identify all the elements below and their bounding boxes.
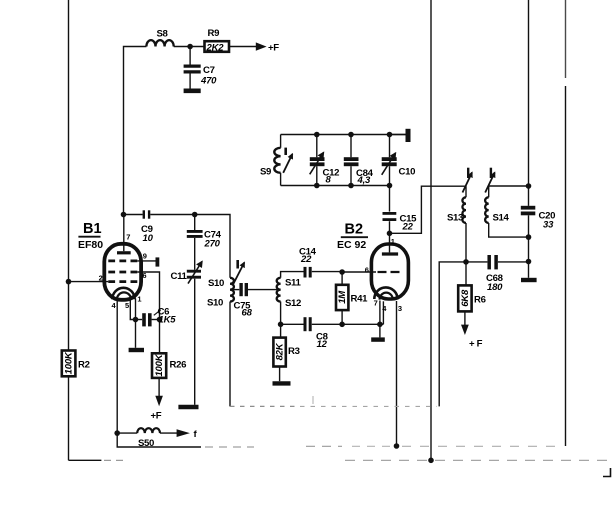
- svg-text:R2: R2: [78, 360, 90, 371]
- svg-text:S10: S10: [208, 278, 224, 289]
- svg-text:R26: R26: [170, 360, 187, 371]
- wire C11 to ground: [194, 279, 196, 405]
- wire far right vertical: [565, 0, 567, 78]
- svg-text:7: 7: [374, 298, 378, 307]
- capacitor C75: [239, 283, 242, 296]
- node B2 cathode junction: [377, 322, 383, 328]
- capacitor C84: [350, 135, 352, 158]
- tank bottom rail: [281, 185, 390, 187]
- B1 underline: [78, 236, 100, 238]
- wire top plate supply: [124, 47, 147, 215]
- wire to C9: [124, 214, 143, 216]
- B1 grid g2 row: [108, 271, 137, 274]
- inductor S50: [137, 428, 160, 433]
- wire faint tick: [312, 396, 314, 404]
- wire B2 pin3 lead: [396, 301, 398, 446]
- svg-text:EF80: EF80: [78, 239, 103, 251]
- wire left rail bottom corner: [69, 459, 102, 461]
- tube B1 envelope: [104, 244, 141, 300]
- svg-text:12: 12: [317, 339, 328, 350]
- node bottom mid: [428, 458, 434, 464]
- wire faint bottom y460: [104, 459, 128, 461]
- svg-text:R9: R9: [208, 28, 220, 39]
- capacitor C8: [304, 317, 307, 331]
- node S12/R3/C8: [278, 322, 284, 328]
- wire to S50: [117, 432, 137, 434]
- B1 anode plate: [117, 251, 131, 254]
- node pin3 end: [394, 443, 400, 449]
- svg-text:22: 22: [300, 254, 312, 265]
- inductor S8: [146, 40, 173, 46]
- svg-text:6: 6: [142, 271, 146, 280]
- wire C9 to C74 node: [150, 214, 194, 216]
- S13 adjust arrow: [467, 168, 469, 178]
- node C84 top: [348, 132, 354, 138]
- node C68 right: [526, 259, 532, 265]
- inductor S14: [485, 197, 489, 223]
- capacitor C12 (variable): [316, 135, 318, 158]
- svg-text:68: 68: [242, 308, 253, 319]
- wire S14 bottom to C20 bottom: [489, 223, 529, 237]
- B2 anode plate: [382, 252, 398, 255]
- resistor R6: [465, 262, 467, 286]
- svg-text:S50: S50: [138, 438, 154, 449]
- node S13/R6/C68: [463, 259, 469, 265]
- wire AVC line: [229, 302, 231, 407]
- resistor R9: [205, 41, 230, 52]
- wire S8 to R9: [174, 46, 205, 48]
- svg-text:1K5: 1K5: [159, 315, 177, 326]
- svg-text:2: 2: [99, 274, 103, 283]
- node C12 bottom: [314, 183, 320, 189]
- wire grid to R41: [342, 271, 376, 273]
- svg-text:S9: S9: [260, 167, 271, 178]
- svg-text:470: 470: [200, 76, 217, 87]
- S10 adjust arrow: [236, 260, 239, 269]
- wire S50 arrow: [160, 432, 178, 434]
- wire C8 to R41 bottom and B2 cathode: [312, 323, 384, 325]
- wire S14 top to C20: [489, 185, 529, 187]
- B2 grid row: [378, 271, 401, 273]
- resistor R2: [62, 351, 76, 377]
- capacitor C14: [304, 267, 307, 278]
- ground C20/C68: [528, 262, 530, 278]
- svg-text:+ F: + F: [469, 339, 483, 350]
- wire S11 top to C14: [281, 272, 304, 278]
- svg-text:82K: 82K: [275, 342, 286, 360]
- svg-text:+F: +F: [268, 43, 279, 54]
- svg-text:S8: S8: [157, 29, 169, 40]
- node C84 bottom: [348, 183, 354, 189]
- capacitor C6: [136, 319, 143, 321]
- wire pin 5 lead: [130, 300, 135, 320]
- wire C74 node to right corner, down to AVC: [195, 215, 230, 278]
- svg-text:5: 5: [125, 301, 129, 310]
- svg-text:22: 22: [402, 222, 414, 233]
- ground R3: [273, 381, 291, 385]
- svg-text:+F: +F: [151, 411, 162, 422]
- svg-text:EC 92: EC 92: [337, 239, 366, 251]
- wire B2 pin4 lead: [382, 301, 384, 324]
- wire faint AVC horizontal: [230, 405, 300, 407]
- svg-text:R6: R6: [474, 295, 486, 306]
- mark bottom right: [603, 468, 611, 477]
- capacitor C68: [466, 261, 487, 263]
- capacitor C9: [143, 210, 145, 218]
- svg-text:33: 33: [543, 220, 554, 231]
- svg-text:1M: 1M: [337, 290, 348, 304]
- inductor S13: [462, 197, 466, 223]
- svg-text:7: 7: [126, 233, 130, 242]
- svg-text:6K8: 6K8: [460, 289, 471, 307]
- node cathode junction: [133, 317, 139, 323]
- wire S12 bottom down: [280, 302, 282, 325]
- node B2 anode junction: [387, 231, 393, 237]
- wire C75 to S11: [248, 289, 281, 291]
- svg-text:6: 6: [365, 265, 369, 274]
- svg-text:B2: B2: [345, 222, 364, 238]
- wire long vertical right: [528, 0, 530, 206]
- ground B2: [379, 324, 381, 337]
- svg-text:1: 1: [137, 295, 141, 304]
- svg-text:1: 1: [391, 237, 395, 246]
- svg-text:9: 9: [143, 251, 147, 260]
- wire anode to S13: [390, 186, 467, 233]
- wire R9 to +F arrow: [229, 46, 257, 48]
- wire pin 1 lead: [135, 299, 137, 320]
- capacitor C15: [383, 212, 397, 215]
- capacitor C10 (variable): [389, 135, 391, 158]
- svg-text:S13: S13: [447, 213, 463, 224]
- capacitor C11 (variable): [187, 270, 201, 273]
- node C12 top: [314, 132, 320, 138]
- ground C7: [184, 89, 201, 94]
- tube B2 envelope: [371, 244, 408, 299]
- terminal tank bar: [390, 134, 406, 136]
- svg-text:10: 10: [143, 233, 154, 244]
- capacitor C7: [189, 47, 191, 65]
- node R41 bottom: [339, 322, 345, 328]
- svg-text:R41: R41: [351, 294, 369, 305]
- S9 adjust arrow: [284, 148, 287, 155]
- node S8/R9/C7 junction: [187, 44, 193, 50]
- wire long vertical mid: [430, 0, 432, 460]
- B1 grid g3 row: [108, 260, 137, 263]
- B2 underline: [341, 236, 368, 238]
- wire S13 bottom: [465, 223, 467, 262]
- capacitor C74: [194, 215, 196, 231]
- node C10 top: [387, 132, 393, 138]
- wire grid to left rail: [69, 281, 109, 283]
- node C20 top: [526, 183, 532, 189]
- wire pin6 down to C6/R26: [137, 272, 159, 320]
- wire pin 4 lead: [116, 301, 118, 434]
- svg-text:S12: S12: [285, 298, 301, 309]
- wire C14 to grid node: [312, 271, 342, 273]
- svg-text:B1: B1: [83, 221, 102, 237]
- node C20 bottom: [526, 234, 532, 240]
- ground B1 cathode: [135, 320, 137, 348]
- svg-text:C10: C10: [399, 167, 416, 178]
- svg-text:S11: S11: [285, 278, 302, 289]
- svg-text:C11: C11: [171, 271, 188, 282]
- wire C10 to C15: [389, 186, 391, 212]
- node R41 top: [339, 269, 345, 275]
- inductor S11 S12: [277, 278, 281, 302]
- B1 cathode arcs: [112, 288, 134, 299]
- wire heater return: [117, 433, 201, 447]
- wire S9 left side: [280, 135, 282, 148]
- svg-text:S14: S14: [493, 213, 510, 224]
- ground C11: [178, 405, 198, 410]
- S14 adjust arrow: [490, 168, 492, 178]
- B1 grid g1 row: [108, 280, 137, 283]
- inductor S10: [230, 278, 234, 302]
- svg-text:2K2: 2K2: [206, 43, 225, 54]
- inductor S9: [274, 148, 280, 173]
- resistor R41: [336, 285, 348, 310]
- node C10 bottom: [387, 183, 393, 189]
- svg-text:C7: C7: [203, 65, 215, 76]
- terminal pin 9 bar: [155, 257, 159, 266]
- svg-text:270: 270: [204, 239, 221, 250]
- node S50 junction: [114, 430, 120, 436]
- svg-text:180: 180: [487, 282, 503, 293]
- svg-text:3: 3: [398, 304, 402, 313]
- node grid/left rail: [66, 279, 72, 285]
- node C9/C74 junction: [192, 212, 198, 218]
- wire pin9: [137, 260, 156, 262]
- B2 cathode arcs: [374, 287, 397, 299]
- svg-text:S10: S10: [207, 298, 223, 309]
- svg-text:100K: 100K: [64, 351, 75, 374]
- svg-text:100K: 100K: [154, 353, 165, 376]
- wire B2 pin7 lead: [379, 301, 381, 325]
- wire S10 tap to C75: [230, 289, 239, 291]
- svg-text:4,3: 4,3: [357, 175, 372, 186]
- tank top rail: [281, 134, 406, 136]
- wire to C8: [281, 323, 304, 325]
- svg-text:R3: R3: [288, 346, 300, 357]
- node C6 right junction: [157, 317, 163, 323]
- node B1 anode / C9 junction: [121, 212, 127, 218]
- capacitor C20: [521, 206, 536, 210]
- wire faint heater y446: [205, 446, 254, 448]
- wire left branch down: [439, 262, 466, 407]
- wire C74 to C11: [194, 238, 196, 270]
- wire left rail vertical: [68, 0, 70, 351]
- resistor R3: [280, 324, 282, 337]
- resistor R26: [159, 320, 161, 354]
